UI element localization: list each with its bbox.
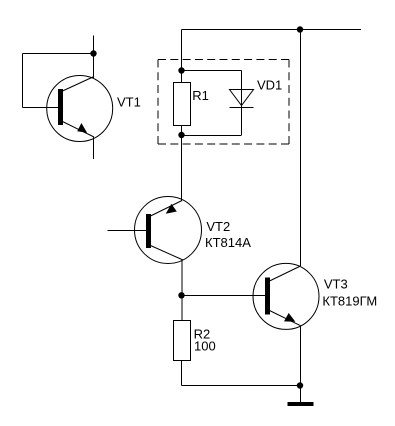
wire VT1 feedback top [23,53,94,55]
svg-text:КТ819ГМ: КТ819ГМ [322,294,377,309]
diode VD1 [230,90,254,108]
wire VT1 feedback left [22,54,24,108]
svg-text:VT1: VT1 [117,94,141,109]
node VT3 base junction [178,292,184,298]
wire left bus lower [181,260,183,321]
transistor Q VT1 [47,76,113,142]
wire VT2 base [108,230,147,232]
wire VT3 emitter [300,326,302,386]
ground [288,402,314,406]
wire R2 bottom vertical [181,361,183,386]
wire VT3 base [182,295,266,297]
wire bottom rail [182,385,301,387]
svg-text:100: 100 [194,338,216,353]
node R1 top [178,67,184,73]
resistor R2 [174,321,191,361]
wire left bus upper [181,30,183,83]
wire top rail [182,29,362,31]
resistor R1 [174,83,191,126]
node ground junction [297,382,303,388]
node R1 bottom [178,132,184,138]
svg-text:VT3: VT3 [324,277,348,292]
wire VD1 top [182,70,242,72]
svg-text:R1: R1 [192,88,209,103]
transistor Q VT2 [135,197,202,264]
wire VT1 base [23,107,59,109]
transistor Q VT3 [253,263,319,329]
wire left bus middle [181,125,183,201]
svg-text:VD1: VD1 [257,78,282,93]
node junction top rail [297,26,303,32]
wire VT1 emitter stub [93,137,95,159]
dashed box [158,60,289,145]
wire VD1 bottom [182,135,242,137]
svg-text:VT2: VT2 [206,219,230,234]
wire ground stub [300,386,302,403]
svg-text:КТ814А: КТ814А [205,235,251,250]
wire VT1 collector stub [93,36,95,79]
node VT1 base-collector junction [90,50,96,56]
wire VD1 vertical [241,71,243,136]
wire right rail [300,30,302,267]
